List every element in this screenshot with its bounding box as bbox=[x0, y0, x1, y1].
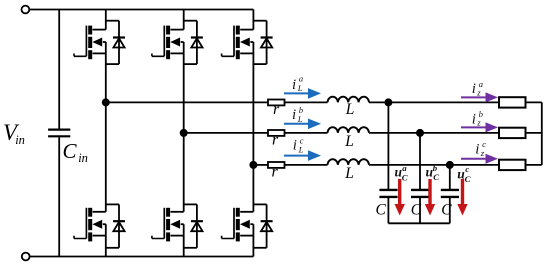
wire: phase c resistor to inductor bbox=[285, 164, 328, 166]
transistor Q5 bbox=[222, 26, 254, 60]
wire: phase a inductor to load bbox=[369, 101, 499, 103]
svg-text:i: i bbox=[292, 77, 296, 93]
svg-text:c: c bbox=[465, 164, 469, 174]
voltage arrow uCb bbox=[425, 179, 435, 216]
wire: phase b leg to resistor bbox=[184, 132, 268, 134]
label iza bbox=[472, 79, 484, 98]
negative input terminal bbox=[22, 253, 30, 261]
capacitor Cb bbox=[411, 190, 429, 197]
wire: leg C source segment bbox=[252, 236, 254, 257]
svg-text:a: a bbox=[402, 163, 407, 173]
label uCc bbox=[457, 164, 470, 184]
transistor Q3 bbox=[152, 26, 184, 60]
wire: leg A drain segment bbox=[105, 10, 107, 30]
wire: leg B mid segment bbox=[183, 53, 185, 211]
wire: DC- bottom rail bbox=[30, 256, 254, 258]
wire: Cin branch upper bbox=[58, 10, 60, 129]
wire: leg A mid segment bbox=[105, 53, 107, 211]
wire: capacitor bottom bus bbox=[388, 222, 449, 224]
resistor ra bbox=[268, 100, 285, 106]
wire: capacitor Ca drop bbox=[387, 102, 389, 189]
label izb bbox=[472, 109, 484, 128]
capacitor Ca bbox=[379, 190, 397, 197]
svg-text:L: L bbox=[344, 165, 354, 182]
inductor La bbox=[328, 97, 369, 103]
wire: capacitor Cb drop bbox=[419, 133, 421, 189]
wire: phase b resistor to inductor bbox=[285, 132, 328, 134]
wire: phase b inductor to load bbox=[369, 132, 499, 134]
svg-text:C: C bbox=[433, 172, 439, 182]
inductor Lc bbox=[328, 159, 369, 165]
svg-text:C: C bbox=[402, 172, 408, 182]
wire: phase a resistor to inductor bbox=[285, 101, 328, 103]
svg-text:i: i bbox=[475, 142, 479, 158]
diode D4 bbox=[106, 204, 125, 247]
transistor Q6 bbox=[152, 208, 184, 242]
svg-text:C: C bbox=[411, 202, 422, 219]
capacitor Cc bbox=[441, 190, 459, 197]
voltage arrow uCc bbox=[457, 179, 467, 216]
diode D2 bbox=[253, 204, 272, 247]
wire: load a to neutral bbox=[526, 101, 542, 103]
node filter tap a bbox=[384, 98, 392, 106]
resistor load Rc bbox=[499, 160, 526, 170]
svg-text:L: L bbox=[297, 83, 303, 93]
wire: leg C mid segment bbox=[252, 53, 254, 211]
transistor Q1 bbox=[74, 26, 106, 60]
svg-text:i: i bbox=[292, 107, 296, 123]
current arrow iLc bbox=[284, 150, 321, 161]
wire: load b to neutral bbox=[526, 132, 542, 134]
diode D6 bbox=[184, 204, 203, 247]
svg-text:z: z bbox=[480, 148, 485, 158]
current arrow izb bbox=[461, 122, 498, 132]
svg-text:i: i bbox=[472, 111, 476, 127]
svg-text:a: a bbox=[299, 74, 304, 84]
svg-text:L: L bbox=[297, 114, 303, 124]
wire: phase a leg to resistor bbox=[106, 101, 268, 103]
current arrow izc bbox=[461, 154, 498, 164]
svg-text:in: in bbox=[78, 151, 88, 165]
label Vin bbox=[3, 120, 25, 147]
svg-text:i: i bbox=[293, 137, 297, 153]
wire: load c to neutral bbox=[526, 164, 542, 166]
svg-text:L: L bbox=[344, 133, 354, 150]
svg-text:C: C bbox=[465, 174, 471, 184]
svg-text:C: C bbox=[441, 202, 452, 219]
wire: leg C drain segment bbox=[252, 10, 254, 30]
wire: capacitor Cb to bus bbox=[419, 198, 421, 223]
current arrow iLa bbox=[284, 88, 321, 99]
node phase b tap bbox=[180, 129, 188, 137]
wire: phase c inductor to load bbox=[369, 164, 499, 166]
svg-text:in: in bbox=[15, 133, 25, 147]
label izc bbox=[475, 139, 486, 158]
svg-text:z: z bbox=[476, 118, 481, 128]
wire: leg B drain segment bbox=[183, 10, 185, 30]
transistor Q2 bbox=[222, 208, 254, 242]
svg-text:r: r bbox=[272, 131, 279, 148]
label Cin bbox=[63, 139, 88, 165]
resistor rc bbox=[268, 162, 285, 168]
svg-text:C: C bbox=[63, 139, 78, 163]
resistor rb bbox=[268, 130, 285, 136]
wire: leg A source segment bbox=[105, 236, 107, 257]
node phase a tap bbox=[102, 98, 110, 106]
svg-text:L: L bbox=[345, 101, 355, 118]
wire: DC+ top rail bbox=[29, 9, 253, 11]
label iLc bbox=[293, 135, 304, 154]
diode D1 bbox=[106, 21, 125, 64]
label uCb bbox=[426, 163, 440, 182]
capacitor Cin bbox=[48, 130, 70, 137]
svg-text:C: C bbox=[376, 202, 387, 219]
wire: capacitor Cc drop bbox=[449, 165, 451, 189]
voltage arrow uCa bbox=[395, 179, 405, 216]
positive input terminal bbox=[22, 6, 30, 14]
node filter tap c bbox=[446, 161, 454, 169]
current arrow iLb bbox=[284, 119, 321, 130]
svg-text:r: r bbox=[272, 163, 279, 180]
wire: leg B source segment bbox=[183, 236, 185, 257]
node phase c tap bbox=[249, 161, 257, 169]
resistor load Ra bbox=[499, 97, 526, 107]
wire: Cin branch lower bbox=[58, 137, 60, 256]
wire: capacitor Cc to bus bbox=[449, 198, 451, 223]
wire: capacitor Ca to bus bbox=[387, 198, 389, 223]
diode D5 bbox=[253, 21, 272, 64]
wire: neutral vertical bbox=[541, 102, 543, 164]
svg-text:b: b bbox=[433, 163, 438, 173]
transistor Q4 bbox=[74, 208, 106, 242]
wire: phase c leg to resistor bbox=[253, 164, 268, 166]
svg-text:z: z bbox=[476, 88, 481, 98]
label iLa bbox=[292, 74, 304, 94]
label uCa bbox=[395, 163, 408, 182]
inductor Lb bbox=[328, 127, 369, 133]
svg-text:i: i bbox=[472, 81, 476, 97]
svg-text:L: L bbox=[298, 145, 304, 155]
diode D3 bbox=[184, 21, 203, 64]
current arrow iza bbox=[461, 92, 498, 102]
resistor load Rb bbox=[499, 128, 526, 138]
label iLb bbox=[292, 105, 304, 124]
node filter tap b bbox=[416, 129, 424, 137]
svg-text:r: r bbox=[273, 101, 280, 118]
